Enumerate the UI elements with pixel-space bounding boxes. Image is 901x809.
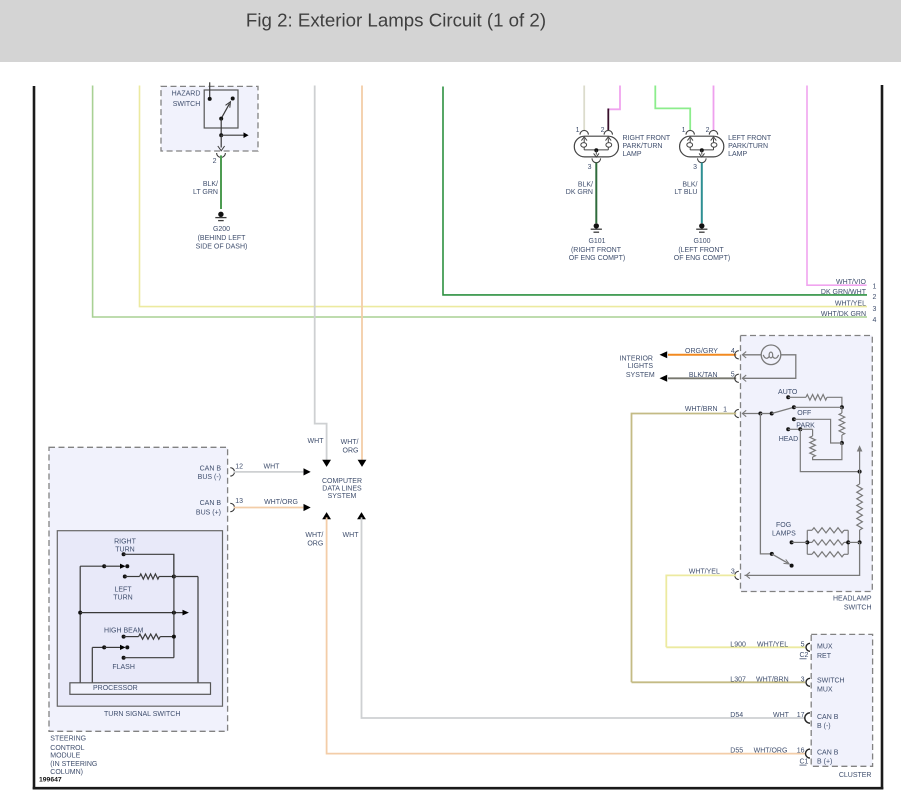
svg-text:CONTROL: CONTROL [50,745,84,752]
svg-text:BUS (+): BUS (+) [196,509,221,516]
svg-text:LEFT FRONT: LEFT FRONT [728,135,772,142]
right lamp common junction [583,147,585,150]
svg-text:BLK/TAN: BLK/TAN [689,372,718,379]
lamp LEFT FRONT PARK/TURN housing [680,136,724,157]
wire D55 WHT/ORG to cluster pin 16 [327,517,805,753]
svg-text:WHT/: WHT/ [305,532,323,539]
wiper 1 vertical [79,566,81,683]
left lamp pin 3 connector [698,158,707,162]
wire down to hazard pin 2 [220,135,222,147]
svg-text:SWITCH: SWITCH [844,604,872,611]
svg-text:3: 3 [801,676,805,683]
wire L900 WHT/YEL to cluster pin 5 [666,646,805,648]
svg-text:G100: G100 [693,238,710,245]
right lamp bulb filaments [581,143,587,148]
headlamp switch PARK contact [792,417,796,421]
ground G200 [218,212,223,217]
svg-text:WHT/: WHT/ [341,439,359,446]
svg-text:12: 12 [235,463,243,470]
resistor R3 (HEAD) [800,428,812,430]
rheostat resistor [859,472,861,484]
flash contact [122,656,126,660]
svg-text:BLK/: BLK/ [578,181,593,188]
wire WHT/VIO feed to right lamp pin 2 [608,86,620,110]
output arrow row [78,611,82,615]
cluster pin 17 connector [805,713,810,723]
svg-text:DK GRN: DK GRN [566,189,593,196]
svg-text:L900: L900 [730,641,746,648]
svg-text:PROCESSOR: PROCESSOR [93,685,138,692]
svg-text:3: 3 [873,306,877,313]
svg-text:FLASH: FLASH [112,664,135,671]
wire WHT/YEL (net 3) [140,86,868,307]
svg-text:2: 2 [213,158,217,165]
svg-text:(BEHIND LEFT: (BEHIND LEFT [198,235,247,242]
svg-text:WHT/ORG: WHT/ORG [754,748,788,755]
node G [858,540,862,544]
svg-text:16: 16 [797,748,805,755]
resistor (AUTO) [788,396,806,398]
svg-text:1: 1 [723,406,727,413]
svg-text:WHT/ORG: WHT/ORG [264,499,298,506]
wire WHT pin12 to data lines node [234,471,303,473]
svg-text:LAMPS: LAMPS [772,530,796,537]
svg-text:WHT/VIO: WHT/VIO [836,279,866,286]
headlamp switch HEAD contact [786,427,790,431]
svg-text:BLK/: BLK/ [203,181,218,188]
wire BLK/LT BLU [701,163,703,224]
wire BLK/DK GRN [595,163,597,224]
wire WHT/VIO (net 1) [807,86,867,286]
svg-text:HIGH BEAM: HIGH BEAM [104,628,143,635]
svg-text:L307: L307 [730,676,746,683]
wire WHT feed to right lamp pin 1 [583,86,585,131]
svg-text:PARK/TURN: PARK/TURN [728,143,768,150]
svg-text:WHT: WHT [308,438,325,445]
left lamp common junction [689,147,691,150]
wire L307 WHT/BRN to cluster pin 3 [632,681,806,683]
svg-text:COLUMN): COLUMN) [50,769,83,776]
svg-text:3: 3 [693,164,697,171]
svg-text:AUTO: AUTO [778,389,798,396]
svg-text:ORG: ORG [343,447,359,454]
diagram frame right border [881,85,884,789]
arrow up into node (WHT) [357,512,366,519]
wire BLK/VIO segment to right lamp pin 2 [607,109,609,131]
svg-text:ORG: ORG [307,540,323,547]
hazard switch blade [221,103,229,118]
arrow to other circuit (right) [221,134,243,136]
fog lamp switch [760,414,771,554]
svg-text:BLK/: BLK/ [682,181,697,188]
cluster pin 16 connector C1 [806,749,811,758]
hazard switch contact dots [208,97,212,101]
svg-text:WHT: WHT [343,532,360,539]
processor box [70,683,211,695]
diagram frame left border [33,86,36,789]
svg-text:TURN SIGNAL SWITCH: TURN SIGNAL SWITCH [104,711,180,718]
svg-text:1: 1 [682,127,686,134]
cluster pin 3 connector [806,678,810,686]
fog feed contact [790,540,794,544]
svg-text:5: 5 [731,372,735,379]
hazard pin 2 connector [217,153,226,157]
svg-text:2: 2 [706,127,710,134]
lamp RIGHT FRONT PARK/TURN housing [574,136,618,157]
svg-text:CAN B: CAN B [817,714,839,721]
headlamp switch box [741,336,873,592]
svg-text:MUX: MUX [817,687,833,694]
svg-text:WHT: WHT [773,712,790,719]
svg-text:STEERING: STEERING [50,736,86,743]
svg-text:RIGHT FRONT: RIGHT FRONT [623,135,671,142]
wire stub into hazard switch [209,82,211,99]
svg-text:4: 4 [873,317,877,324]
svg-text:17: 17 [797,712,805,719]
wire WHT/DK GRN (net 4) [93,86,867,318]
svg-text:G200: G200 [213,226,230,233]
hazard junction node [219,133,223,137]
svg-text:LIGHTS: LIGHTS [628,363,654,370]
svg-text:HEADLAMP: HEADLAMP [833,595,872,602]
svg-text:SWITCH: SWITCH [817,678,845,685]
wire D54 WHT to cluster pin 17 [362,517,806,718]
hazard switch contact housing [204,90,238,128]
svg-text:BUS (-): BUS (-) [198,474,221,481]
svg-text:RET: RET [817,653,832,660]
svg-text:13: 13 [235,498,243,505]
svg-text:SWITCH: SWITCH [173,101,201,108]
diagram frame bottom border [33,787,884,790]
wire ORG/GRY [668,354,736,356]
svg-text:C1: C1 [800,758,809,765]
hazard switch box [161,86,258,151]
wire VIO feed to left lamp pin 2 [713,86,715,131]
svg-text:LT GRN: LT GRN [193,189,218,196]
vertical bus in turn signal switch [173,554,175,657]
wire from rheostat to pin 3 [745,542,860,575]
cluster box [811,634,872,766]
svg-text:ORG/GRY: ORG/GRY [685,348,718,355]
wire BLK/LT GRN [220,155,222,209]
svg-text:D54: D54 [730,712,743,719]
right turn contact [122,552,126,556]
wire DK GRN/WHT (net 2) [443,87,867,295]
svg-text:MODULE: MODULE [50,752,80,759]
svg-text:WHT/YEL: WHT/YEL [689,568,720,575]
right lamp pin 3 connector [592,158,601,162]
svg-text:HAZARD: HAZARD [172,91,201,98]
steering control module box [49,447,228,731]
svg-text:CLUSTER: CLUSTER [839,772,872,779]
svg-text:D55: D55 [730,748,743,755]
turn signal wiper 2 [92,646,104,648]
node F [858,470,862,474]
arrow to interior lights (pin 5) [660,375,668,382]
svg-text:LT BLU: LT BLU [674,189,697,196]
svg-text:LAMP: LAMP [728,151,747,158]
left lamp bulb filaments [687,143,693,148]
svg-text:OFF: OFF [797,410,811,417]
headlamp switch wiper [742,413,760,415]
svg-text:WHT/YEL: WHT/YEL [835,301,866,308]
svg-text:HEAD: HEAD [779,436,798,443]
svg-text:WHT/YEL: WHT/YEL [757,641,788,648]
wire from hazard blade to junction [220,119,222,136]
svg-text:PARK/TURN: PARK/TURN [623,143,663,150]
svg-text:DK GRN/WHT: DK GRN/WHT [821,289,867,296]
wire WHT/YEL to headlamp pin 3 [666,575,736,647]
wire WHT/ORG from top to node [361,86,363,462]
svg-text:LEFT: LEFT [114,587,132,594]
svg-text:SYSTEM: SYSTEM [626,372,655,379]
svg-text:199647: 199647 [39,777,62,784]
svg-text:G101: G101 [588,238,605,245]
illumination bulb in headlamp switch [742,354,761,356]
arrow up into node (WHT/ORG) [322,512,331,519]
svg-text:(IN STEERING: (IN STEERING [50,761,97,768]
wire WHT/ORG pin13 to data lines node [234,507,303,509]
svg-text:2: 2 [873,294,877,301]
svg-text:(RIGHT FRONT: (RIGHT FRONT [571,247,622,254]
wire LT GRN feed to left lamp pin 1 [655,86,690,131]
svg-text:B (+): B (+) [817,758,832,765]
wire from HEAD node to dimmer [800,429,859,471]
left turn contact and resistor [123,575,127,579]
wire WHT/BRN to headlamp pin 1 [632,414,737,683]
node D [840,441,844,445]
node J1 [840,405,844,409]
svg-text:CAN B: CAN B [200,465,222,472]
svg-text:INTERIOR: INTERIOR [620,356,653,363]
ground G100 [699,223,704,228]
svg-text:WHT/BRN: WHT/BRN [756,676,789,683]
svg-text:WHT/BRN: WHT/BRN [685,406,718,413]
wire BLK/TAN [668,377,736,379]
svg-text:Fig 2: Exterior Lamps Circuit: Fig 2: Exterior Lamps Circuit (1 of 2) [246,9,546,30]
turn signal wiper 1 [80,565,104,567]
svg-text:SIDE OF DASH): SIDE OF DASH) [196,243,248,250]
svg-text:OF ENG COMPT): OF ENG COMPT) [674,255,730,262]
title bar [0,0,901,62]
svg-text:B (-): B (-) [817,723,831,730]
svg-text:CAN B: CAN B [817,749,839,756]
svg-text:OF ENG COMPT): OF ENG COMPT) [569,255,625,262]
svg-text:TURN: TURN [113,595,132,602]
wire WHT from top to node [315,86,327,462]
svg-text:DATA LINES: DATA LINES [322,486,362,493]
resistor R2 vertical [841,407,843,413]
svg-text:WHT/DK GRN: WHT/DK GRN [821,311,866,318]
svg-text:LAMP: LAMP [623,151,642,158]
cluster pin 5 connector C2 [806,643,810,651]
dimmer wiper arrow [859,450,861,472]
svg-text:1: 1 [576,127,580,134]
svg-text:RIGHT: RIGHT [114,539,137,546]
svg-text:TURN: TURN [115,547,134,554]
svg-text:5: 5 [801,641,805,648]
turn signal switch box [57,531,222,707]
svg-text:3: 3 [588,164,592,171]
svg-text:FOG: FOG [776,522,791,529]
svg-text:C2: C2 [800,652,809,659]
svg-text:CAN B: CAN B [200,500,222,507]
svg-text:(LEFT FRONT: (LEFT FRONT [678,247,724,254]
svg-text:1: 1 [873,284,877,291]
svg-text:WHT: WHT [264,463,281,470]
svg-text:COMPUTER: COMPUTER [322,478,362,485]
svg-text:SYSTEM: SYSTEM [328,493,357,500]
ground G101 [594,223,599,228]
svg-text:MUX: MUX [817,644,833,651]
arrow to interior lights (pin 4) [660,351,668,358]
